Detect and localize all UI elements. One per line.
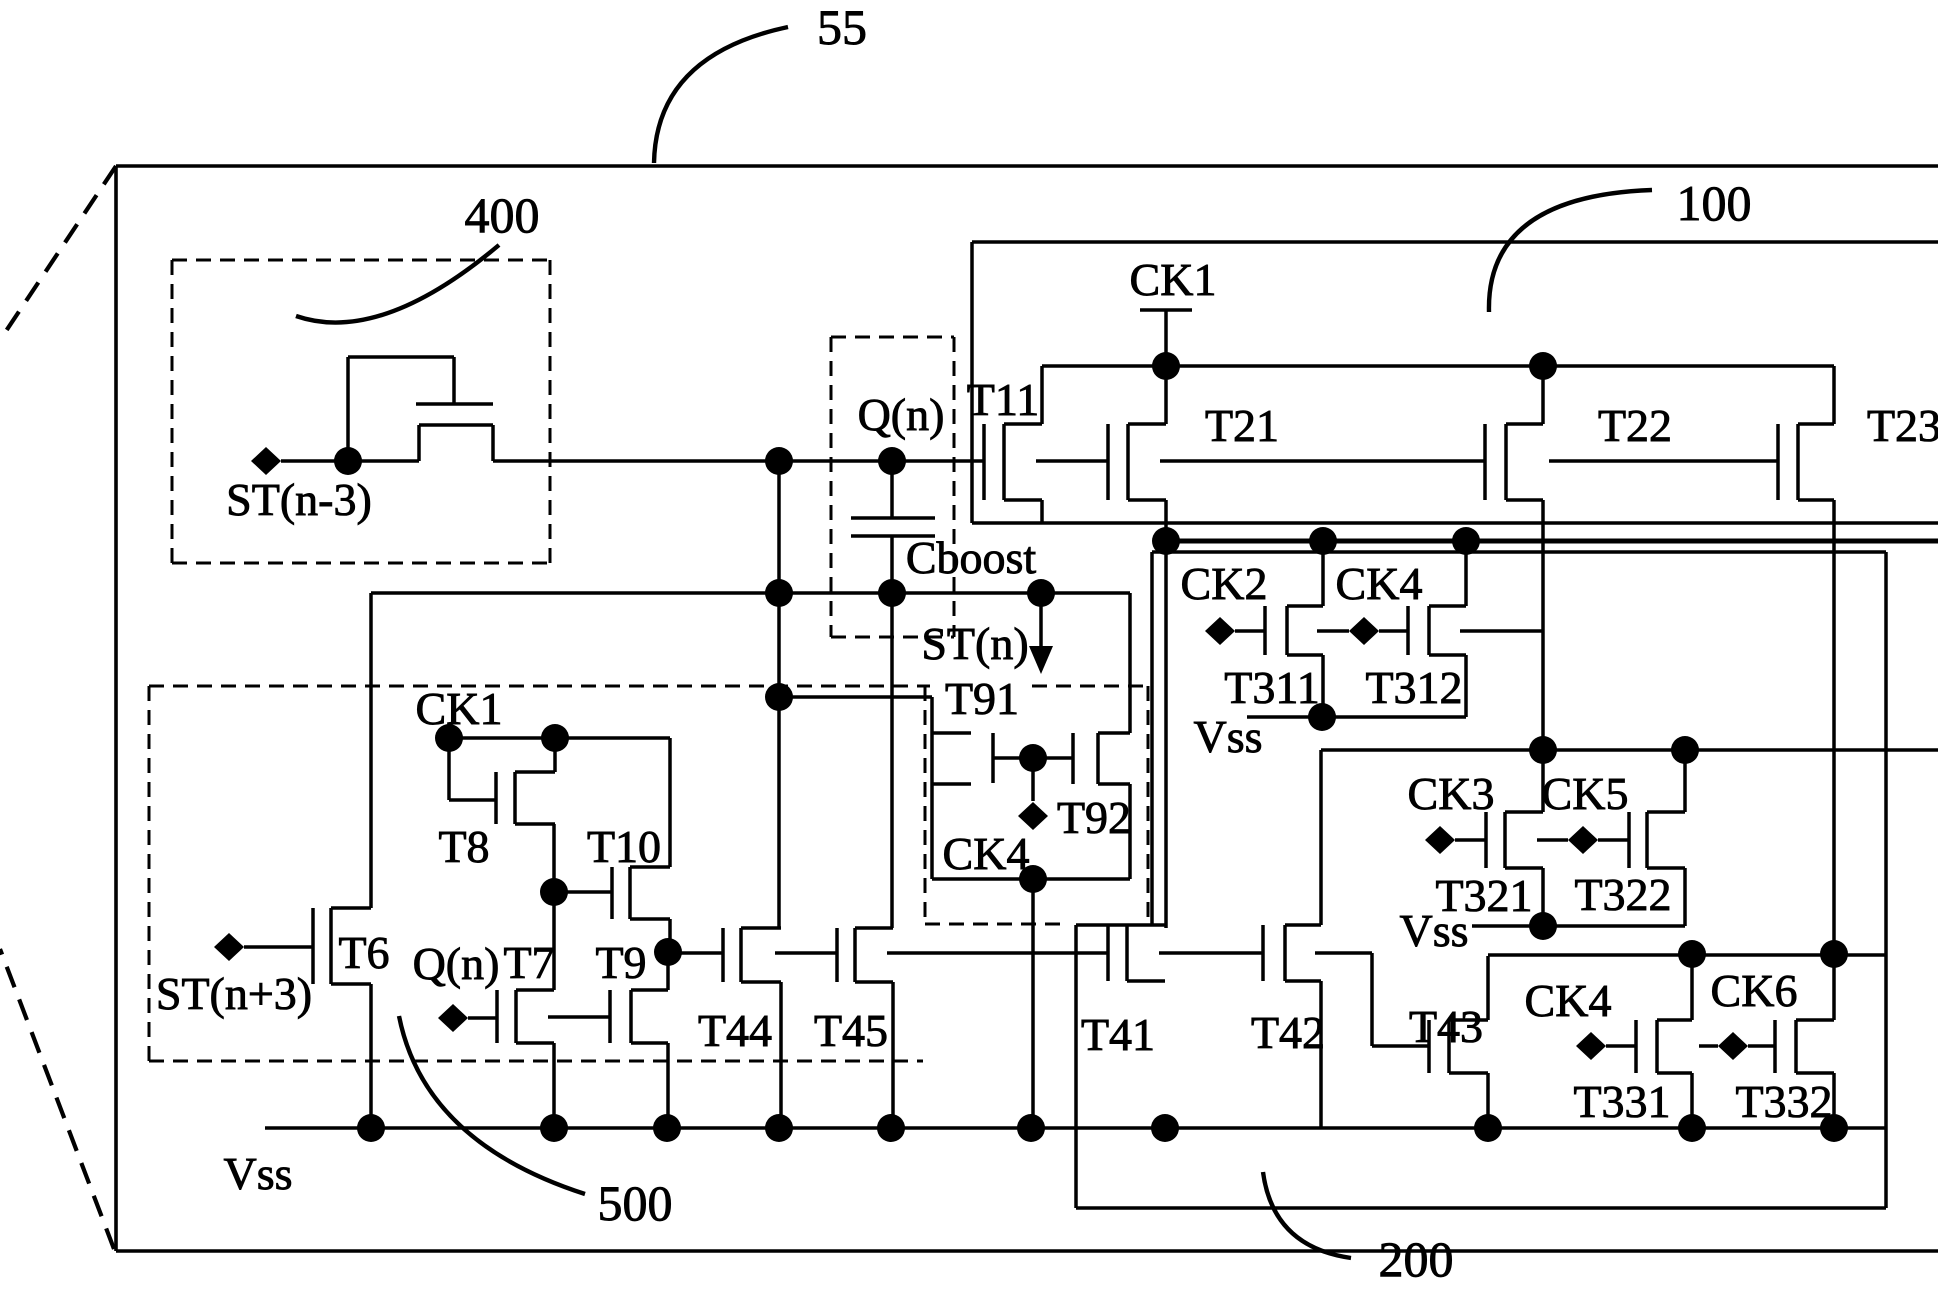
svg-text:CK4: CK4 bbox=[1336, 558, 1423, 609]
svg-text:500: 500 bbox=[598, 1175, 673, 1231]
svg-text:ST(n+3): ST(n+3) bbox=[156, 968, 312, 1019]
svg-text:CK4: CK4 bbox=[943, 828, 1030, 879]
svg-text:T21: T21 bbox=[1205, 400, 1279, 451]
svg-text:Vss: Vss bbox=[1399, 905, 1468, 956]
svg-text:T8: T8 bbox=[438, 821, 489, 872]
svg-text:CK3: CK3 bbox=[1408, 768, 1495, 819]
svg-text:T11: T11 bbox=[967, 374, 1039, 425]
svg-text:T9: T9 bbox=[595, 937, 646, 988]
svg-text:T322: T322 bbox=[1574, 869, 1671, 920]
svg-text:400: 400 bbox=[465, 187, 540, 243]
svg-text:T311: T311 bbox=[1224, 662, 1319, 713]
svg-text:Cboost: Cboost bbox=[906, 532, 1037, 583]
svg-text:CK6: CK6 bbox=[1711, 965, 1798, 1016]
svg-text:Q(n): Q(n) bbox=[858, 389, 945, 440]
svg-text:CK5: CK5 bbox=[1542, 768, 1629, 819]
svg-text:T331: T331 bbox=[1573, 1076, 1670, 1127]
svg-text:T92: T92 bbox=[1057, 792, 1131, 843]
svg-text:T42: T42 bbox=[1251, 1007, 1325, 1058]
svg-text:CK1: CK1 bbox=[416, 683, 503, 734]
svg-text:200: 200 bbox=[1379, 1231, 1454, 1287]
svg-text:T312: T312 bbox=[1365, 662, 1462, 713]
svg-text:CK1: CK1 bbox=[1130, 254, 1217, 305]
svg-text:Vss: Vss bbox=[1193, 711, 1262, 762]
svg-text:ST(n-3): ST(n-3) bbox=[226, 474, 372, 525]
svg-text:T45: T45 bbox=[814, 1005, 888, 1056]
svg-text:Vss: Vss bbox=[223, 1148, 292, 1199]
svg-text:T23: T23 bbox=[1867, 400, 1938, 451]
svg-text:CK4: CK4 bbox=[1525, 975, 1612, 1026]
svg-text:55: 55 bbox=[817, 0, 867, 55]
svg-text:T10: T10 bbox=[587, 821, 661, 872]
svg-text:T332: T332 bbox=[1735, 1076, 1832, 1127]
svg-text:T6: T6 bbox=[338, 927, 389, 978]
svg-text:T22: T22 bbox=[1598, 400, 1672, 451]
svg-text:ST(n): ST(n) bbox=[921, 618, 1028, 669]
svg-text:T43: T43 bbox=[1409, 1001, 1483, 1052]
svg-text:CK2: CK2 bbox=[1181, 558, 1268, 609]
svg-text:Q(n): Q(n) bbox=[413, 938, 500, 989]
svg-text:T91: T91 bbox=[945, 673, 1019, 724]
svg-text:T7: T7 bbox=[503, 937, 554, 988]
svg-text:T44: T44 bbox=[698, 1005, 772, 1056]
svg-text:100: 100 bbox=[1677, 175, 1752, 231]
svg-text:T41: T41 bbox=[1081, 1009, 1155, 1060]
